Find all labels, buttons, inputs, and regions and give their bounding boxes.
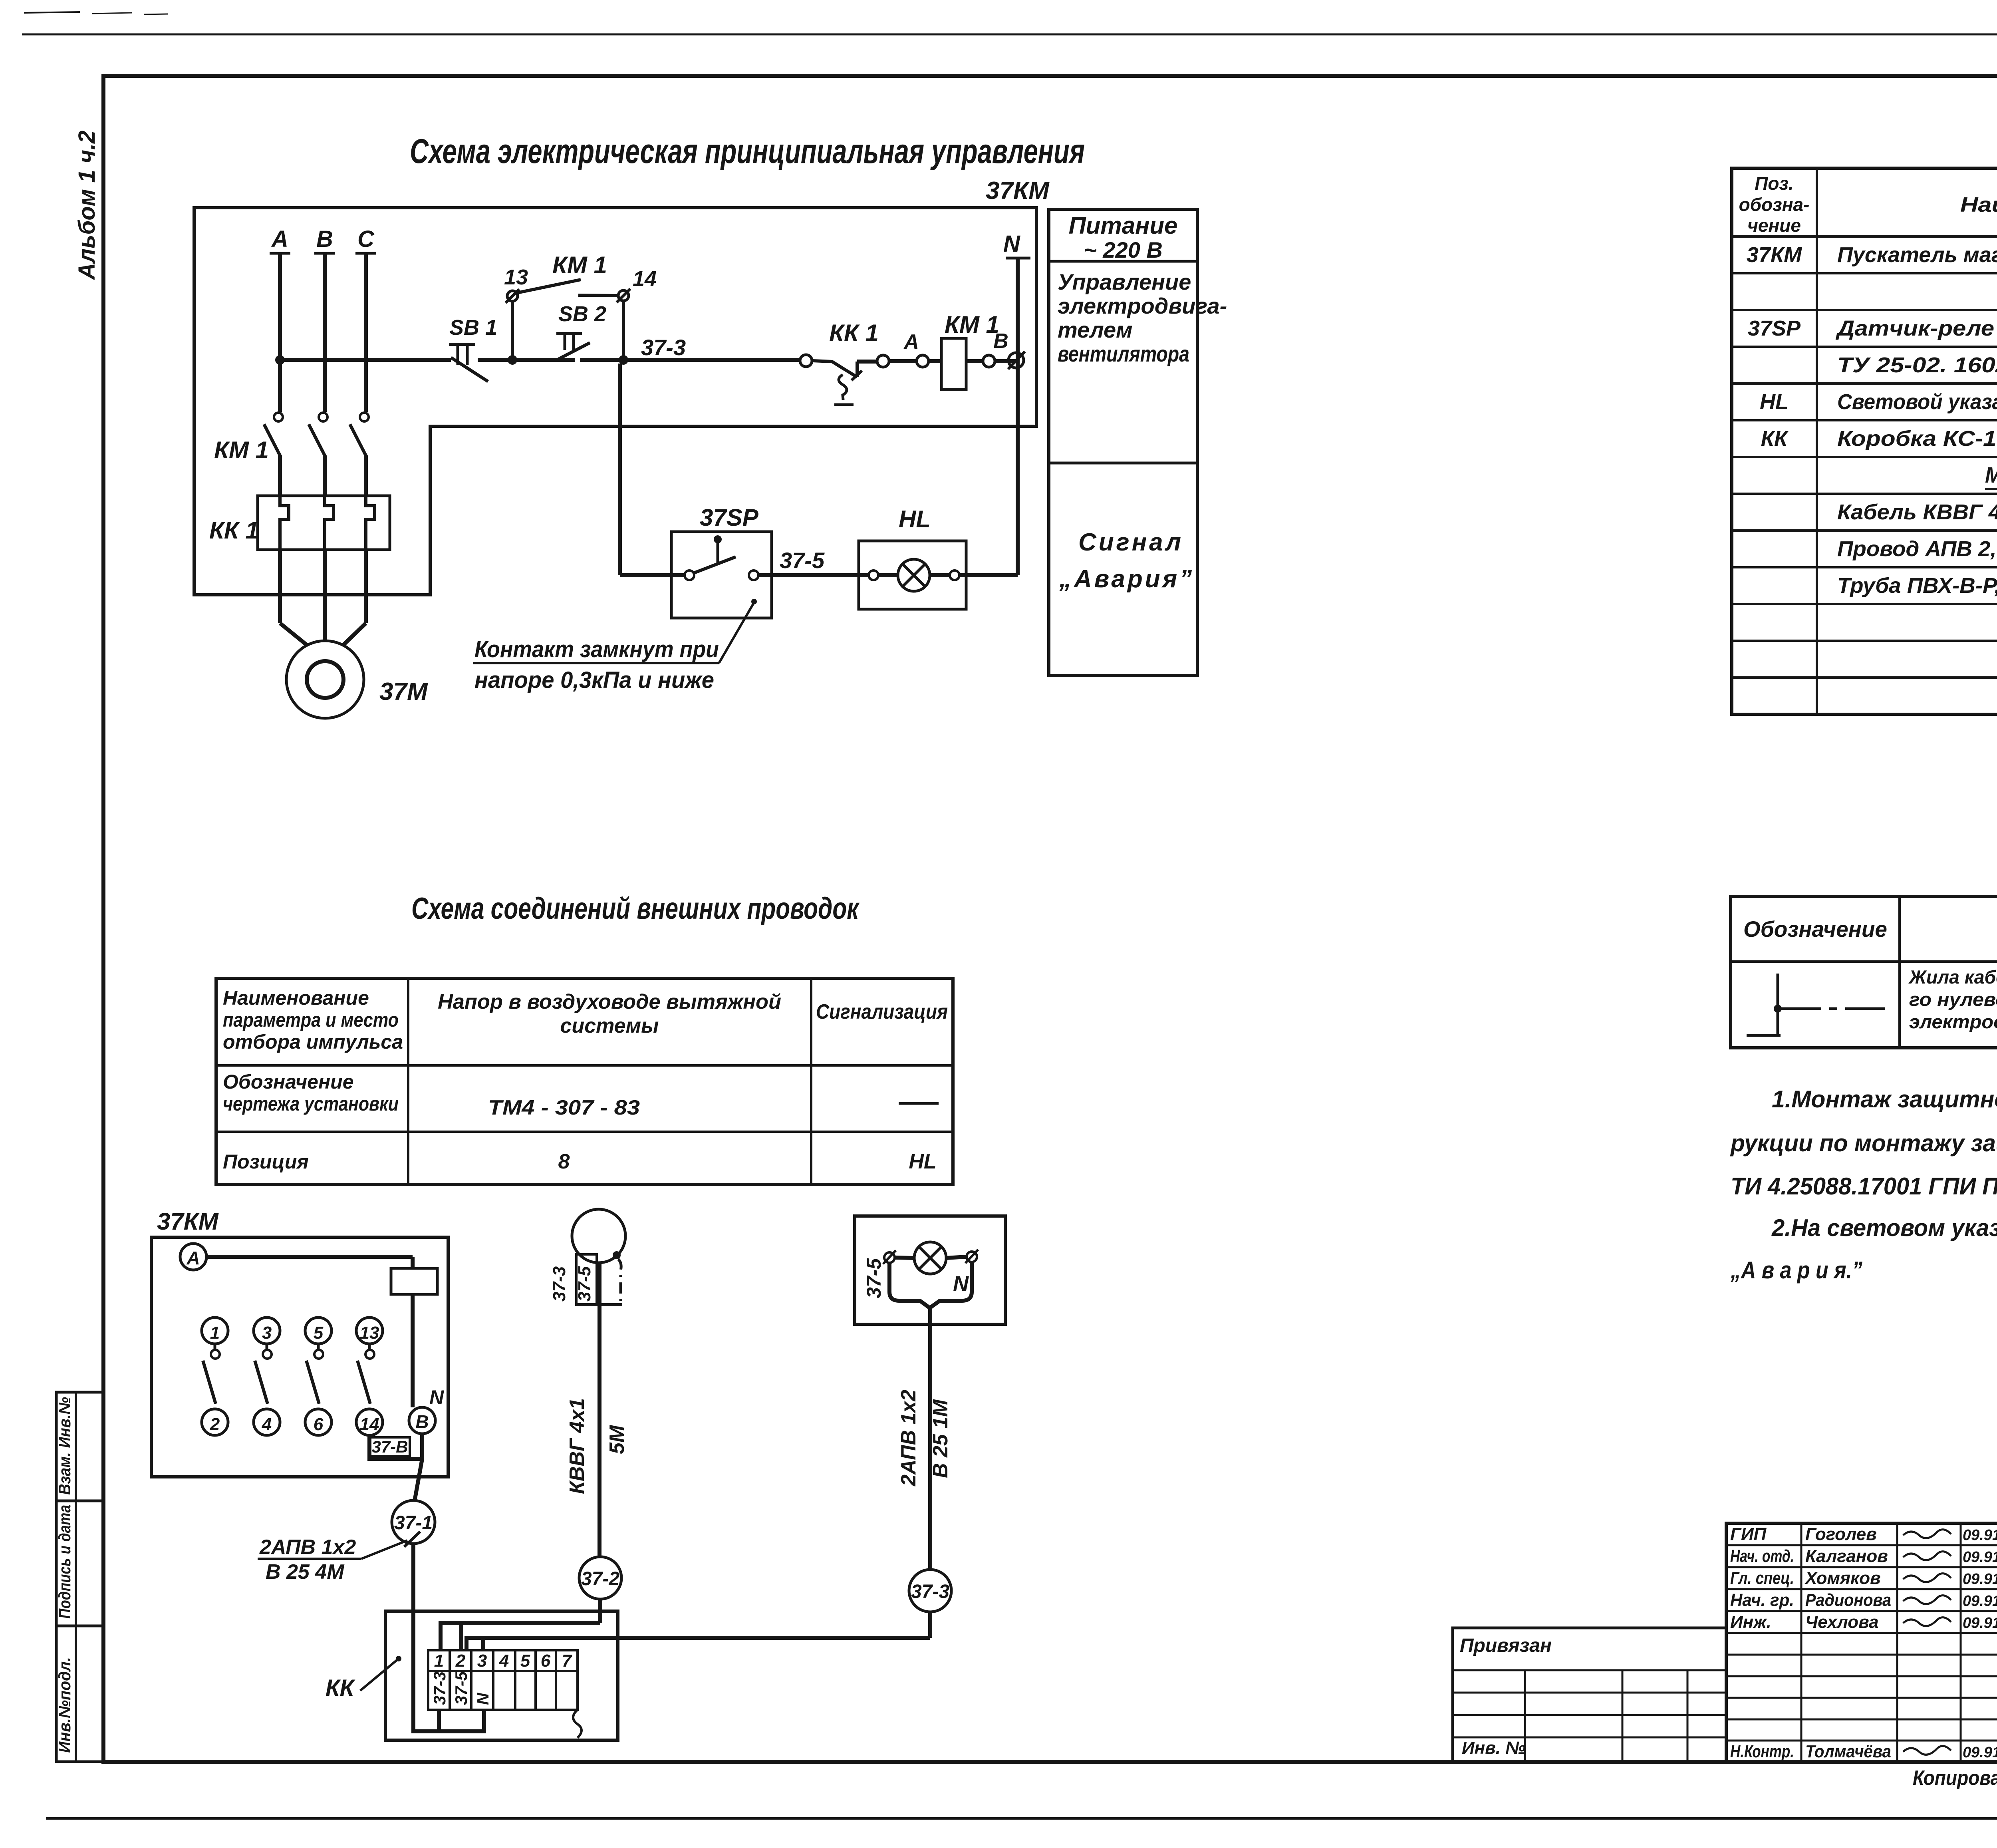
svg-text:14: 14 [360,1415,379,1434]
svg-text:Копировал: Сидорова: Копировал: Сидорова [1913,1767,1997,1790]
svg-text:„А в а р и я.”: „А в а р и я.” [1730,1257,1862,1284]
svg-text:4: 4 [499,1651,509,1671]
svg-text:6: 6 [541,1651,551,1671]
svg-text:Радионова: Радионова [1805,1590,1891,1610]
svg-text:Контакт замкнут при: Контакт замкнут при [474,636,719,662]
svg-text:электродвига-: электродвига- [1058,293,1227,318]
svg-text:КМ 1: КМ 1 [552,252,607,278]
svg-text:Инв. №: Инв. № [1462,1738,1526,1758]
svg-text:Жила кабеля или провода, испол: Жила кабеля или провода, используемая в … [1908,966,1997,988]
svg-text:КК: КК [1761,427,1789,451]
svg-text:37-5: 37-5 [452,1671,470,1705]
svg-text:Кабель КВВГ 4х1 ГОСТ 1508-78: Кабель КВВГ 4х1 ГОСТ 1508-78* Е [1837,500,1997,524]
svg-text:КК 1: КК 1 [829,320,879,346]
svg-text:чертежа установки: чертежа установки [223,1093,399,1115]
svg-text:1: 1 [210,1323,220,1343]
svg-text:Толмачёва: Толмачёва [1805,1742,1891,1761]
svg-text:Провод АПВ 2,0-380 ГОСТ 632: Провод АПВ 2,0-380 ГОСТ 6323-79* Е [1837,537,1997,561]
svg-text:рукции по монтажу защитного: рукции по монтажу защитного зануления и … [1730,1130,1997,1156]
svg-text:N: N [953,1272,969,1296]
svg-text:Обозначение: Обозначение [223,1071,354,1093]
svg-text:2: 2 [210,1415,220,1434]
svg-text:37-В: 37-В [371,1437,408,1456]
svg-text:КВВГ 4х1: КВВГ 4х1 [566,1398,589,1494]
svg-text:ТМ4 - 307 - 83: ТМ4 - 307 - 83 [488,1096,640,1119]
svg-text:КМ 1: КМ 1 [214,437,269,463]
svg-text:8: 8 [558,1150,570,1173]
svg-text:37КМ: 37КМ [986,177,1050,205]
svg-text:09.91: 09.91 [1963,1744,1997,1761]
svg-text:37-3: 37-3 [641,335,686,360]
svg-text:Материалы: Материалы [1985,462,1997,487]
svg-text:09.91: 09.91 [1963,1527,1997,1544]
svg-text:Наименование: Наименование [223,987,369,1009]
svg-text:14: 14 [633,267,657,291]
svg-text:5: 5 [520,1651,530,1671]
svg-text:Коробка КС-10 ТУ 36.2568-83Е: Коробка КС-10 ТУ 36.2568-83Е [1837,427,1997,451]
svg-text:вентилятора: вентилятора [1058,341,1189,366]
svg-text:5: 5 [314,1323,324,1343]
svg-text:37SP: 37SP [700,504,759,531]
svg-text:А: А [186,1248,200,1268]
svg-text:Альбом 1 ч.2: Альбом 1 ч.2 [74,131,100,280]
svg-text:„Авария”: „Авария” [1059,565,1194,593]
svg-text:параметра и место: параметра и место [223,1009,399,1031]
svg-text:системы: системы [560,1014,659,1037]
svg-text:телем: телем [1058,317,1133,342]
svg-text:Обозначение: Обозначение [1743,916,1887,942]
svg-text:N: N [473,1692,492,1705]
svg-text:2.На световом указателе СУП: 2.На световом указателе СУП - МУ2 выполн… [1771,1214,1997,1241]
svg-text:Гл. спец.: Гл. спец. [1730,1568,1794,1588]
svg-text:ТУ 25-02. 160217-83: ТУ 25-02. 160217-83 [1837,353,1997,377]
svg-text:отбора импульса: отбора импульса [223,1031,403,1053]
svg-text:13: 13 [360,1323,379,1343]
svg-text:Схема электрическая принципи: Схема электрическая принципиальная управ… [410,132,1085,171]
svg-text:37-3: 37-3 [430,1671,449,1705]
svg-text:Подпись и дата: Подпись и дата [55,1505,74,1619]
svg-text:5М: 5М [605,1425,629,1454]
svg-text:А: А [903,330,919,354]
svg-text:SB 1: SB 1 [449,316,497,340]
svg-text:С: С [357,226,375,252]
svg-text:НL: НL [899,506,931,533]
svg-text:В 25 1М: В 25 1М [929,1399,952,1478]
svg-text:В: В [316,226,333,252]
svg-text:Нач. отд.: Нач. отд. [1730,1546,1794,1566]
svg-text:Нач. гр.: Нач. гр. [1730,1590,1794,1610]
svg-text:2АПВ 1х2: 2АПВ 1х2 [259,1536,356,1559]
svg-text:09.91: 09.91 [1963,1571,1997,1588]
svg-text:37КМ: 37КМ [1747,243,1802,267]
svg-text:Датчик-реле напора ДН-2,5: Датчик-реле напора ДН-2,5 [1836,316,1997,340]
svg-text:КМ 1: КМ 1 [945,311,999,338]
svg-text:Сигнализация: Сигнализация [816,1000,948,1023]
svg-text:Пускатель магнитный: Пускатель магнитный [1837,243,1997,267]
svg-text:7: 7 [562,1651,573,1671]
svg-text:Схема соединений внешних прово: Схема соединений внешних проводок [411,892,860,926]
svg-text:1.Монтаж защитного зануления: 1.Монтаж защитного зануления выполнить с… [1772,1086,1997,1113]
svg-text:В: В [415,1411,429,1432]
svg-text:А: А [271,226,288,252]
svg-text:НL: НL [909,1150,936,1173]
svg-text:В 25 4М: В 25 4М [266,1560,345,1584]
svg-text:Инж.: Инж. [1730,1612,1771,1632]
svg-text:Инв.№подл.: Инв.№подл. [55,1657,74,1753]
svg-text:Позиция: Позиция [223,1151,309,1173]
svg-text:КК: КК [326,1675,355,1701]
svg-text:ТИ 4.25088.17001 ГПИ ПМА.: ТИ 4.25088.17001 ГПИ ПМА. [1731,1173,1997,1200]
svg-text:09.91: 09.91 [1963,1593,1997,1610]
svg-text:Напор в воздуховоде вытяжной: Напор в воздуховоде вытяжной [438,990,781,1013]
svg-text:чение: чение [1747,215,1801,236]
svg-text:6: 6 [314,1415,324,1434]
svg-text:1: 1 [434,1651,444,1671]
svg-text:Взам. Инв.№: Взам. Инв.№ [55,1397,74,1495]
svg-text:N: N [1003,231,1020,257]
svg-text:Привязан: Привязан [1460,1635,1552,1656]
svg-text:09.91: 09.91 [1963,1615,1997,1631]
svg-text:Наименование: Наименование [1960,193,1997,217]
svg-text:37-3: 37-3 [550,1266,569,1302]
svg-text:Световой указатель СУП-МУ2 ТУ3: Световой указатель СУП-МУ2 ТУ36-101-82 [1837,390,1997,414]
svg-text:Н.Контр.: Н.Контр. [1730,1742,1794,1761]
svg-text:13: 13 [504,265,528,289]
svg-text:37SP: 37SP [1748,316,1801,340]
svg-text:SB 2: SB 2 [558,302,606,326]
svg-text:37-5: 37-5 [863,1258,885,1298]
svg-text:37-5: 37-5 [780,548,825,573]
svg-text:09.91: 09.91 [1963,1549,1997,1566]
svg-text:4: 4 [262,1415,272,1434]
svg-text:напоре 0,3кПа и ниже: напоре 0,3кПа и ниже [474,667,714,693]
svg-text:37-5: 37-5 [575,1266,594,1302]
svg-text:В: В [993,330,1008,353]
svg-text:37М: 37М [379,678,428,705]
svg-text:электрооборудования: электрооборудования [1909,1011,1997,1032]
svg-text:КК 1: КК 1 [209,517,259,544]
svg-text:2АПВ 1х2: 2АПВ 1х2 [897,1390,920,1486]
svg-text:го нулевого проводника и присо: го нулевого проводника и присоединяемая … [1909,989,1997,1010]
svg-text:Управление: Управление [1058,269,1191,294]
svg-text:N: N [429,1386,444,1409]
svg-text:Калганов: Калганов [1805,1546,1888,1566]
svg-text:Труба ПВХ-В-Р, ЭП 25У ТУ6-19-: Труба ПВХ-В-Р, ЭП 25У ТУ6-19-215-83 [1837,574,1997,598]
svg-text:37КМ: 37КМ [157,1208,219,1235]
svg-text:Сигнал: Сигнал [1078,529,1183,556]
svg-text:37-3: 37-3 [911,1581,949,1602]
svg-text:ГИП: ГИП [1730,1524,1767,1544]
svg-text:~ 220 В: ~ 220 В [1084,237,1163,262]
svg-text:2: 2 [455,1651,466,1671]
svg-text:3: 3 [262,1323,272,1343]
svg-text:Хомяков: Хомяков [1804,1568,1881,1588]
svg-text:37-1: 37-1 [394,1512,433,1534]
svg-text:Чехлова: Чехлова [1805,1612,1879,1632]
svg-text:37-2: 37-2 [581,1568,619,1590]
svg-text:НL: НL [1760,390,1789,414]
svg-text:Поз.: Поз. [1755,173,1793,194]
svg-text:3: 3 [477,1651,487,1671]
svg-text:Гоголев: Гоголев [1805,1524,1877,1544]
svg-text:Питание: Питание [1069,212,1178,239]
svg-text:обозна-: обозна- [1739,194,1810,215]
